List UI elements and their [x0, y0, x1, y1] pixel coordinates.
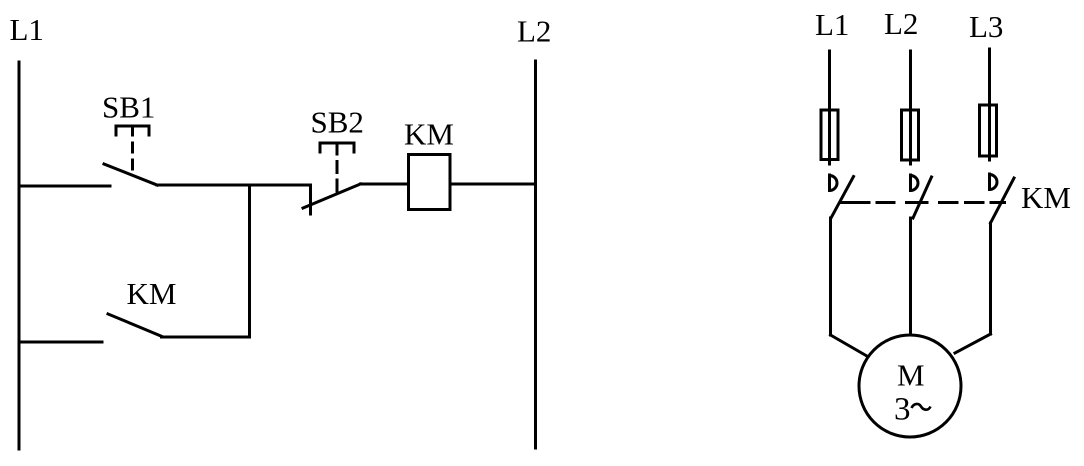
- svg-text:KM: KM: [1021, 180, 1071, 215]
- svg-text:SB2: SB2: [311, 105, 364, 140]
- svg-text:SB1: SB1: [102, 90, 155, 125]
- svg-text:M: M: [897, 358, 925, 393]
- svg-text:L2: L2: [884, 6, 918, 41]
- svg-text:3: 3: [894, 392, 911, 428]
- svg-text:KM: KM: [404, 117, 454, 152]
- svg-text:L3: L3: [969, 9, 1003, 44]
- svg-text:L2: L2: [517, 14, 551, 49]
- svg-text:L1: L1: [815, 7, 849, 42]
- svg-text:L1: L1: [10, 12, 44, 47]
- svg-text:KM: KM: [127, 276, 177, 311]
